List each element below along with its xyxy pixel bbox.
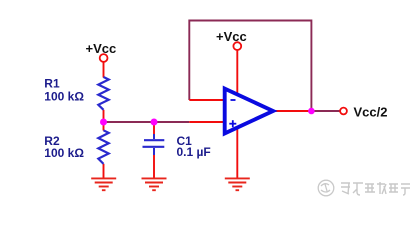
svg-text:+Vcc: +Vcc <box>216 29 247 44</box>
svg-text:0.1 µF: 0.1 µF <box>177 145 211 159</box>
svg-text:100 kΩ: 100 kΩ <box>44 146 84 160</box>
svg-text:R1: R1 <box>44 77 60 91</box>
svg-text:+Vcc: +Vcc <box>86 41 117 56</box>
svg-text:100 kΩ: 100 kΩ <box>44 90 84 104</box>
svg-text:Vcc/2: Vcc/2 <box>354 105 388 120</box>
